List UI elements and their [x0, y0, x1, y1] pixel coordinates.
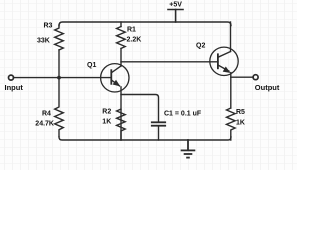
resistor R2	[117, 109, 126, 140]
terminal Input	[9, 75, 14, 80]
resistor R5	[227, 108, 236, 140]
svg-text:R4: R4	[42, 110, 51, 117]
wire R1 bottom to Q1 collector	[120, 49, 122, 67]
transistor Q2	[210, 47, 238, 75]
wire C1 bottom	[158, 127, 160, 140]
wire Q2 emitter down	[230, 73, 232, 108]
wire Q1 collector to Q2 base	[121, 61, 218, 63]
wire R3 bottom to junction	[58, 50, 60, 78]
wire Q2 collector up	[230, 22, 232, 52]
wire R1 top stub	[120, 22, 122, 27]
svg-text:+5V: +5V	[169, 1, 182, 8]
transistor Q1	[101, 64, 129, 92]
resistor R3	[55, 25, 64, 50]
svg-text:1K: 1K	[236, 119, 245, 126]
wire output line	[231, 76, 253, 78]
wire bottom rail	[59, 137, 231, 140]
wire top rail	[59, 22, 231, 26]
svg-text:Q1: Q1	[87, 62, 96, 69]
terminal Output	[253, 75, 258, 80]
resistor R1	[117, 27, 126, 49]
svg-text:1K: 1K	[102, 119, 111, 126]
svg-text:R3: R3	[44, 23, 53, 30]
node input junction	[57, 76, 61, 80]
ground	[182, 140, 195, 158]
svg-text:C1 = 0.1 uF: C1 = 0.1 uF	[164, 110, 202, 117]
svg-text:2.2K: 2.2K	[127, 36, 142, 43]
capacitor C1	[152, 122, 165, 125]
svg-text:Q2: Q2	[196, 43, 205, 50]
wire emitter to C1	[121, 95, 159, 122]
wire input line	[14, 77, 112, 79]
svg-text:Input: Input	[5, 83, 24, 92]
svg-text:33K: 33K	[37, 38, 50, 45]
wire Q1 emitter down	[120, 87, 122, 140]
power +5V symbol	[168, 10, 183, 23]
svg-text:R2: R2	[102, 108, 111, 115]
svg-text:Output: Output	[255, 83, 280, 92]
svg-text:24.7K: 24.7K	[35, 121, 54, 128]
svg-text:R1: R1	[127, 27, 136, 34]
resistor R4	[55, 78, 64, 137]
svg-text:R5: R5	[236, 109, 245, 116]
